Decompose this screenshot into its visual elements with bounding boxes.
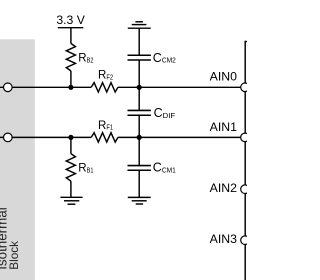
svg-text:3.3 V: 3.3 V	[56, 13, 85, 27]
wire: AIN0 node to CDIF	[138, 87, 140, 110]
wire: supply bar to resistor RB2	[70, 28, 72, 44]
wire: CCM2 to AIN0 node	[138, 60, 140, 87]
wire: CDIF to AIN1 node	[138, 115, 140, 137]
3.3 V supply bar	[58, 27, 84, 29]
pin AIN1 terminal	[241, 133, 250, 142]
wire: RB1 to ground	[70, 181, 72, 197]
node C (AIN1 / RB1 junction)	[68, 135, 73, 140]
pin AIN3 terminal	[241, 236, 250, 245]
wire: AIN1 line, left terminal to RF1	[0, 136, 91, 138]
wire: RB2 to AIN0 node	[70, 71, 72, 87]
pin AIN0 terminal	[241, 83, 250, 92]
ground symbol above CCM2 (inverted)	[135, 21, 143, 23]
svg-text:AIN0: AIN0	[210, 70, 237, 84]
resistor RB1 (vertical zigzag)	[66, 154, 75, 182]
isothermal block (gray region)	[0, 39, 35, 280]
wire: RF2 to AIN0 pin	[118, 86, 245, 88]
resistor RF2 (horizontal zigzag)	[91, 83, 118, 92]
wire: RF1 to AIN1 pin	[118, 136, 245, 138]
node B (AIN0 / CCM2 / CDIF junction)	[137, 85, 142, 90]
capacitor CCM1	[128, 165, 151, 167]
svg-text:Block: Block	[7, 241, 21, 270]
resistor RF1 (horizontal zigzag)	[91, 133, 118, 142]
pin AIN2 terminal	[241, 185, 250, 194]
wire: AIN1 node to CCM1	[138, 137, 140, 165]
IC box edge (ADC left boundary)	[245, 42, 247, 280]
svg-text:AIN3: AIN3	[210, 232, 237, 246]
ground symbol below CCM1	[128, 196, 151, 198]
svg-text:AIN2: AIN2	[210, 181, 237, 195]
wire: top ground to CCM2	[138, 28, 140, 55]
capacitor CDIF	[128, 109, 151, 111]
node D (AIN1 / CDIF / CCM1 junction)	[137, 135, 142, 140]
node A (AIN0 / RB2 junction)	[68, 85, 73, 90]
wire: CCM1 to ground	[138, 170, 140, 197]
capacitor CCM2	[128, 54, 151, 56]
wire: AIN0 line, left terminal to RF2	[0, 86, 91, 88]
input terminal (AIN1 line, left)	[4, 133, 13, 142]
svg-text:AIN1: AIN1	[210, 120, 237, 134]
resistor RB2 (vertical zigzag)	[66, 43, 75, 71]
ground symbol below RB1	[60, 196, 82, 198]
wire: AIN1 node to resistor RB1	[70, 137, 72, 153]
input terminal (AIN0 line, left)	[4, 83, 13, 92]
